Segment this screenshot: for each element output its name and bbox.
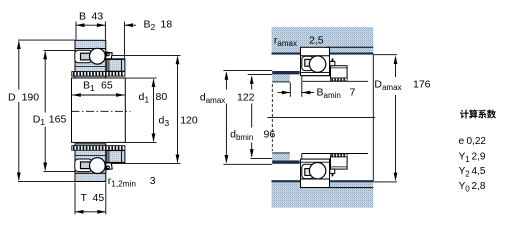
svg-text:B: B (79, 11, 86, 23)
svg-text:43: 43 (92, 11, 104, 23)
svg-text:D1165: D1165 (33, 113, 67, 127)
svg-text:D: D (8, 92, 16, 104)
svg-text:190: 190 (22, 92, 40, 104)
svg-text:0,22: 0,22 (467, 136, 487, 147)
svg-text:45: 45 (93, 192, 105, 204)
svg-text:T: T (81, 192, 88, 204)
svg-text:e: e (459, 136, 465, 147)
svg-text:Y12,9: Y12,9 (459, 151, 486, 164)
svg-text:Y02,8: Y02,8 (459, 181, 486, 194)
svg-text:Y24,5: Y24,5 (459, 166, 486, 179)
